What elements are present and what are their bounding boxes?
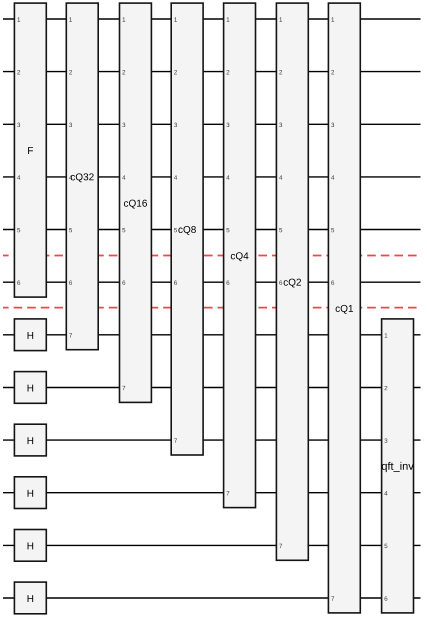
- pin 6 of F: [17, 281, 20, 285]
- wire q7: [3, 334, 421, 336]
- pin 7 of cQ1: [331, 596, 334, 600]
- gate cQ8 U4: [171, 3, 203, 455]
- pin 5 of cQ1: [331, 228, 334, 232]
- pin 7 of cQ16: [122, 386, 125, 390]
- pin 4 of cQ16: [122, 175, 125, 179]
- gate cQ1 U7: [328, 3, 360, 613]
- wire q11: [3, 544, 421, 546]
- pin 5 of cQ4: [226, 228, 229, 232]
- pin 5 of cQ8: [174, 228, 177, 232]
- label cQ16: [124, 200, 147, 209]
- pin 4 of cQ32: [69, 175, 72, 179]
- wire q8: [3, 387, 421, 389]
- pin 1 of cQ32: [69, 17, 72, 21]
- pin 4 of cQ1: [331, 175, 334, 179]
- H gate on q7: [14, 319, 46, 351]
- gate cQ32 U2: [66, 3, 98, 350]
- pin 1 of qft_inv: [385, 333, 388, 337]
- gate cQ4 U5: [224, 3, 256, 508]
- pin 5 of qft_inv: [384, 544, 387, 548]
- pin 6 of cQ4: [227, 281, 230, 285]
- pin 4 of qft_inv: [384, 491, 387, 495]
- pin 2 of cQ2: [279, 70, 282, 74]
- H gate on q8: [14, 372, 46, 404]
- pin 6 of cQ32: [69, 281, 72, 285]
- barrier 2 (red dashed): [3, 307, 421, 309]
- wire q3: [3, 123, 421, 125]
- pin 7 of cQ2: [279, 544, 282, 548]
- label cQ4: [231, 252, 249, 261]
- pin 7 of cQ4: [227, 491, 230, 495]
- pin 3 of cQ4: [226, 123, 229, 127]
- pin 4 of F: [17, 175, 20, 179]
- label F: [28, 147, 33, 154]
- wire q6: [3, 281, 421, 283]
- pin 3 of cQ2: [279, 123, 282, 127]
- wire q4: [3, 176, 421, 178]
- pin 1 of cQ8: [174, 17, 177, 21]
- pin 3 of cQ16: [122, 123, 125, 127]
- pin 6 of qft_inv: [385, 596, 388, 600]
- pin 2 of qft_inv: [385, 386, 388, 390]
- label cQ1: [336, 305, 353, 314]
- H gate on q9: [14, 424, 46, 456]
- pin 6 of cQ1: [331, 281, 334, 285]
- pin 2 of cQ8: [174, 70, 177, 74]
- pin 3 of cQ32: [69, 123, 72, 127]
- pin 2 of F: [17, 70, 20, 74]
- gate F U1: [14, 3, 46, 297]
- pin 4 of cQ4: [226, 175, 229, 179]
- label cQ32: [71, 173, 94, 182]
- H gate on q10: [14, 477, 46, 509]
- pin 1 of cQ4: [227, 17, 230, 21]
- gate cQ16 U3: [120, 3, 152, 402]
- pin 2 of cQ1: [331, 70, 334, 74]
- pin 5 of F: [17, 228, 20, 232]
- pin 2 of cQ16: [122, 70, 125, 74]
- wire q9: [3, 439, 421, 441]
- pin 5 of cQ16: [122, 228, 125, 232]
- wire q10: [3, 492, 421, 494]
- label cQ2: [284, 279, 301, 288]
- pin 6 of cQ16: [122, 281, 125, 285]
- gate qft_inv U8: [382, 319, 414, 613]
- pin 1 of cQ1: [331, 17, 334, 21]
- pin 4 of cQ8: [174, 175, 177, 179]
- pin 2 of cQ32: [69, 70, 72, 74]
- barrier 1 (red dashed): [3, 255, 421, 257]
- pin 2 of cQ4: [227, 70, 230, 74]
- label qft_inv: [382, 462, 414, 472]
- wire q12: [3, 597, 421, 599]
- wire q5: [3, 229, 421, 231]
- pin 7 of cQ8: [174, 439, 177, 443]
- pin 3 of qft_inv: [384, 438, 387, 442]
- pin 1 of F: [17, 17, 20, 21]
- pin 5 of cQ32: [69, 228, 72, 232]
- H gate on q12: [14, 582, 46, 614]
- pin 1 of cQ16: [123, 17, 126, 21]
- pin 3 of F: [17, 123, 20, 127]
- pin 6 of cQ8: [174, 281, 177, 285]
- pin 6 of cQ2: [279, 281, 282, 285]
- pin 3 of cQ1: [331, 123, 334, 127]
- gate cQ2 U6: [276, 3, 308, 560]
- wire q1: [3, 18, 421, 20]
- wire q2: [3, 71, 421, 73]
- H gate on q11: [14, 530, 46, 562]
- label cQ8: [178, 226, 195, 235]
- pin 7 of cQ32: [69, 333, 72, 337]
- pin 5 of cQ2: [279, 228, 282, 232]
- pin 4 of cQ2: [279, 175, 282, 179]
- pin 1 of cQ2: [279, 17, 282, 21]
- pin 3 of cQ8: [174, 123, 177, 127]
